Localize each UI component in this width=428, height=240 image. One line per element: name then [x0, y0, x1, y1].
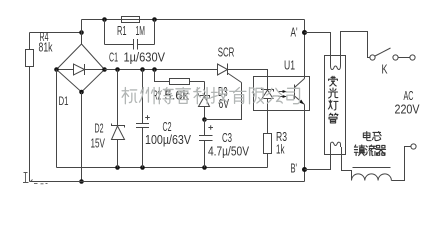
wire top rail — [82, 19, 305, 21]
wire bottom rail — [30, 181, 305, 183]
switch K — [370, 48, 410, 77]
svg-text:U1: U1 — [284, 58, 295, 73]
node B prime — [302, 167, 307, 172]
svg-text:4.7µ/50V: 4.7µ/50V — [208, 144, 249, 159]
wire emitter column — [304, 105, 306, 182]
wire B prime to lamp — [305, 147, 331, 170]
node R1 left junction — [102, 17, 107, 22]
wire bridge bottom vertex drop — [81, 92, 83, 182]
resistor R3 1k — [264, 111, 288, 168]
capacitor C2 100u/63V — [136, 70, 191, 168]
phototransistor U1 — [295, 79, 306, 106]
node R2 top — [152, 67, 157, 72]
wire negative rail — [57, 167, 268, 169]
wire C1 branch bottom right — [138, 44, 155, 46]
fluorescent lamp tube — [325, 56, 346, 155]
svg-text:K: K — [382, 62, 388, 77]
wire C1 branch left — [104, 20, 106, 45]
wire ballast left lead to lamp — [342, 147, 352, 181]
node A prime — [302, 30, 307, 35]
svg-text:1M: 1M — [136, 23, 146, 38]
wire R4 top to bridge top node — [30, 32, 82, 34]
capacitor C3 4.7u/50V — [199, 120, 249, 168]
node C3 bottom — [202, 165, 207, 170]
svg-text:A': A' — [291, 25, 298, 40]
node bridge right vertex — [102, 67, 107, 72]
svg-text:15V: 15V — [91, 135, 106, 150]
svg-text:1k: 1k — [276, 142, 285, 157]
svg-text:100µ/63V: 100µ/63V — [145, 132, 191, 147]
wire A prime to lamp — [305, 33, 331, 63]
svg-text:81k: 81k — [39, 40, 53, 55]
label AC 220V — [395, 88, 420, 117]
node bridge bottom vertex — [79, 90, 84, 95]
optocoupler U1 — [254, 58, 310, 111]
wire SCR cathode to U1 — [228, 70, 268, 77]
node C2 top — [140, 67, 145, 72]
node C2 bottom — [140, 165, 145, 170]
svg-text:SCR: SCR — [218, 45, 235, 60]
svg-text:220V: 220V — [395, 102, 420, 117]
zener D2 15V — [91, 70, 125, 168]
node D2 bottom — [115, 165, 120, 170]
LED inside U1 — [262, 77, 274, 111]
svg-text:D2: D2 — [95, 120, 104, 135]
resistor R2 5.6k — [153, 70, 205, 103]
node bridge top junction — [79, 30, 84, 35]
wire C1 branch right — [154, 20, 156, 45]
wire AC bottom to ballast — [391, 147, 411, 181]
tiny scan marks bottom left — [23, 172, 48, 184]
watermark — [122, 88, 299, 104]
svg-text:C1: C1 — [109, 50, 118, 65]
thyristor SCR — [218, 45, 242, 83]
svg-text:R1: R1 — [117, 23, 127, 38]
wire DC plus rail — [105, 69, 218, 71]
resistor R4 — [26, 29, 53, 182]
node R1 right junction — [152, 17, 157, 22]
capacitor C1 1u/630V — [109, 39, 165, 65]
wire A prime column — [304, 20, 306, 79]
svg-text:D1: D1 — [59, 94, 69, 108]
wire bridge top lead — [81, 20, 83, 45]
bridge rectifier D1 — [57, 44, 105, 108]
resistor R1 1M — [117, 17, 145, 39]
inductor ballast — [352, 132, 392, 181]
wire gate link — [205, 83, 242, 120]
light arrows U1 — [279, 90, 287, 98]
node D3 C3 junction — [202, 117, 207, 122]
AC terminal top — [410, 55, 415, 60]
AC terminal bottom — [411, 144, 416, 149]
node bottom rail junction — [79, 179, 84, 184]
node D2 top — [115, 67, 120, 72]
svg-text:1µ/630V: 1µ/630V — [124, 50, 166, 65]
node bridge left vertex — [54, 67, 59, 72]
zener D3 6V — [199, 82, 230, 120]
svg-text:B': B' — [291, 161, 298, 176]
wire C1 branch bottom left — [105, 44, 134, 46]
wire lamp top right lead to switch — [341, 32, 370, 63]
wire bridge left vertex drop — [56, 70, 58, 168]
